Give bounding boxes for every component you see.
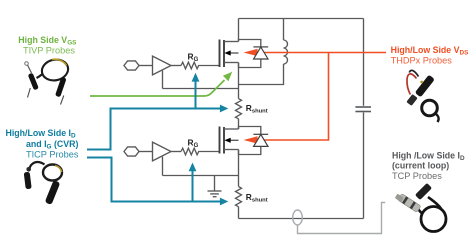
- svg-text:TICP Probes: TICP Probes: [26, 150, 79, 160]
- svg-text:TIVP Probes: TIVP Probes: [23, 46, 75, 56]
- svg-text:Rshunt: Rshunt: [246, 192, 268, 204]
- svg-text:(current loop): (current loop): [392, 161, 449, 171]
- svg-text:THDPx Probes: THDPx Probes: [391, 56, 453, 66]
- svg-text:RG: RG: [188, 138, 199, 150]
- svg-text:Rshunt: Rshunt: [246, 103, 268, 115]
- svg-text:High/Low Side ID: High/Low Side ID: [6, 128, 77, 140]
- svg-text:RG: RG: [188, 52, 199, 64]
- svg-text:TCP Probes: TCP Probes: [392, 171, 442, 181]
